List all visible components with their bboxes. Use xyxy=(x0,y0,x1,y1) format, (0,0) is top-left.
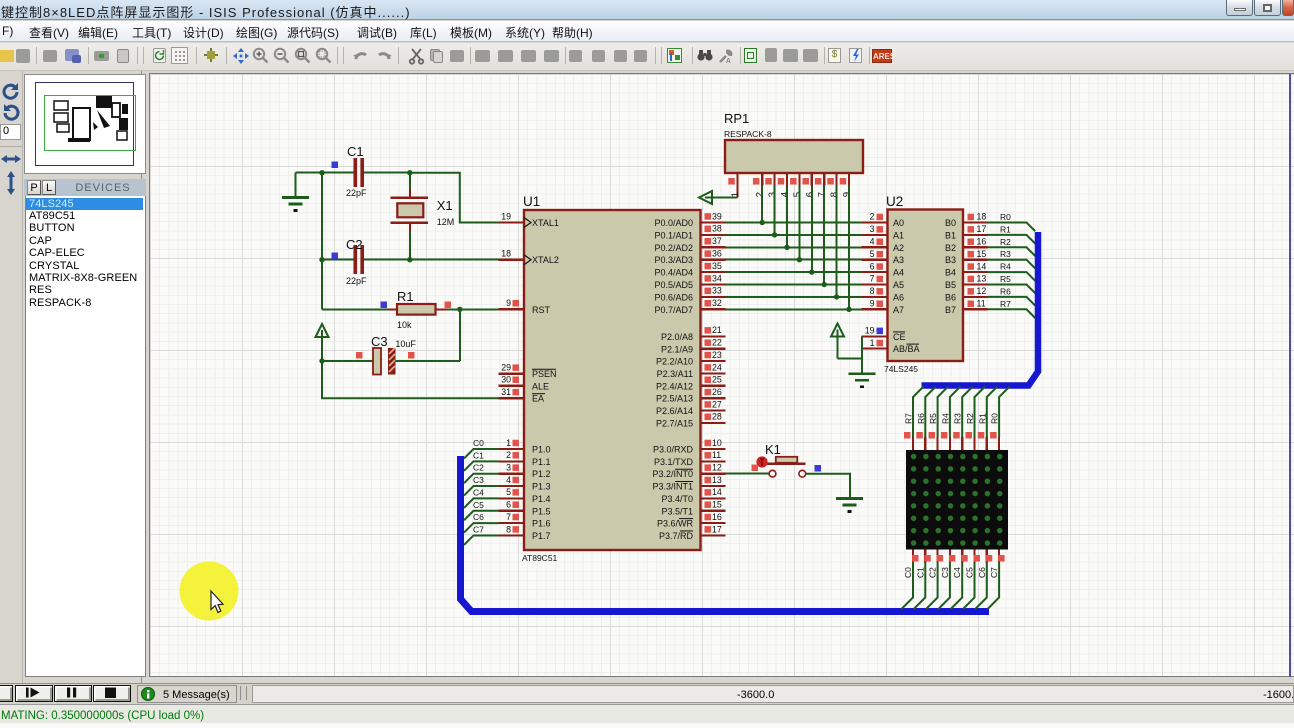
svg-text:P1.2: P1.2 xyxy=(532,469,551,479)
svg-text:C3: C3 xyxy=(473,475,484,485)
svg-text:4: 4 xyxy=(780,192,791,197)
svg-text:C6: C6 xyxy=(473,512,484,522)
svg-text:4: 4 xyxy=(506,475,511,485)
svg-text:1: 1 xyxy=(506,438,511,448)
svg-text:B2: B2 xyxy=(945,243,956,253)
svg-text:P3.4/T0: P3.4/T0 xyxy=(661,494,693,504)
svg-text:P2.2/A10: P2.2/A10 xyxy=(656,357,693,367)
svg-text:29: 29 xyxy=(501,363,511,373)
U1 left logic-state squares xyxy=(513,300,520,533)
U2 pin names xyxy=(893,218,956,354)
svg-text:15: 15 xyxy=(712,500,722,510)
net labels C0-C7 below matrix (rotated) xyxy=(903,567,999,578)
svg-text:B0: B0 xyxy=(945,218,956,228)
svg-text:R0: R0 xyxy=(990,413,1000,424)
svg-text:C3: C3 xyxy=(371,334,388,349)
svg-text:35: 35 xyxy=(712,261,722,271)
svg-text:22: 22 xyxy=(712,338,722,348)
power arrow (reset section) xyxy=(316,324,329,361)
svg-text:39: 39 xyxy=(712,211,722,221)
svg-text:PSEN: PSEN xyxy=(532,369,557,379)
crystal X1 xyxy=(391,173,428,261)
svg-text:RST: RST xyxy=(532,305,551,315)
net labels R0-R7 (U2 right) xyxy=(1000,212,1011,309)
wires RP1 pins 2-9 down to P0 rows xyxy=(762,186,849,310)
U2 left pin numbers xyxy=(865,212,875,348)
node R1 right junction xyxy=(457,307,462,312)
svg-text:13: 13 xyxy=(977,274,987,284)
U2 right logic-state squares xyxy=(968,214,975,307)
svg-text:5: 5 xyxy=(870,249,875,259)
svg-text:A5: A5 xyxy=(893,280,904,290)
svg-text:R5: R5 xyxy=(928,413,938,424)
power arrow (RP1 pin1, pointing left) xyxy=(699,191,738,204)
node C3 left junction xyxy=(319,358,324,363)
RP1 logic-state squares xyxy=(728,178,846,185)
svg-text:CE: CE xyxy=(893,332,906,342)
svg-text:34: 34 xyxy=(712,273,722,283)
svg-text:37: 37 xyxy=(712,236,722,246)
svg-text:26: 26 xyxy=(712,387,722,397)
node X1 top junction xyxy=(407,170,412,175)
svg-text:RESPACK-8: RESPACK-8 xyxy=(724,129,772,139)
ground (crystal section) xyxy=(282,198,309,211)
U2 left logic-state squares xyxy=(877,214,884,347)
svg-text:13: 13 xyxy=(712,475,722,485)
svg-text:17: 17 xyxy=(712,524,722,534)
svg-text:15: 15 xyxy=(977,249,987,259)
svg-text:R2: R2 xyxy=(965,413,975,424)
svg-text:4: 4 xyxy=(870,237,875,247)
button K1 xyxy=(767,457,806,477)
node C2 junction xyxy=(319,257,324,262)
net labels C0-C7 (P1 side) xyxy=(473,438,484,534)
svg-text:U2: U2 xyxy=(886,194,903,209)
U2 right pin stubs xyxy=(963,223,988,310)
svg-text:32: 32 xyxy=(712,298,722,308)
U1 left pin numbers xyxy=(501,211,511,534)
svg-text:24: 24 xyxy=(712,362,722,372)
svg-text:A7: A7 xyxy=(893,305,904,315)
svg-text:19: 19 xyxy=(501,211,511,221)
svg-text:2: 2 xyxy=(870,212,875,222)
svg-text:5: 5 xyxy=(792,192,803,197)
svg-text:33: 33 xyxy=(712,286,722,296)
svg-text:19: 19 xyxy=(865,326,875,336)
svg-text:K1: K1 xyxy=(765,442,781,457)
svg-text:C6: C6 xyxy=(977,567,987,578)
svg-text:P2.0/A8: P2.0/A8 xyxy=(661,332,693,342)
svg-text:3: 3 xyxy=(506,463,511,473)
svg-text:10k: 10k xyxy=(397,320,412,330)
svg-text:R7: R7 xyxy=(1000,299,1011,309)
logic-state squares R1 xyxy=(381,302,388,309)
logic-state square C2 xyxy=(332,253,339,260)
wire left rail x=322 (C1/C2/R1) xyxy=(321,173,323,310)
svg-text:P0.2/AD2: P0.2/AD2 xyxy=(654,243,693,253)
svg-text:P3.3/INT1: P3.3/INT1 xyxy=(652,482,693,492)
U2 left pin stubs xyxy=(862,223,888,349)
svg-text:P0.4/AD4: P0.4/AD4 xyxy=(654,268,693,278)
node X1 bottom junction xyxy=(407,257,412,262)
svg-text:16: 16 xyxy=(712,512,722,522)
svg-text:9: 9 xyxy=(870,299,875,309)
svg-text:38: 38 xyxy=(712,224,722,234)
svg-text:7: 7 xyxy=(870,274,875,284)
buffer U2 74LS245 body xyxy=(888,210,964,362)
svg-text:C5: C5 xyxy=(965,567,975,578)
svg-text:10: 10 xyxy=(712,438,722,448)
svg-text:C0: C0 xyxy=(903,567,913,578)
U1 left pin names xyxy=(532,218,559,541)
svg-text:A4: A4 xyxy=(893,268,904,278)
svg-text:P2.4/A12: P2.4/A12 xyxy=(656,381,693,391)
svg-text:27: 27 xyxy=(712,399,722,409)
svg-text:A2: A2 xyxy=(893,243,904,253)
U1 right logic-state squares xyxy=(705,213,712,532)
K1 interactive actuator dot xyxy=(756,456,767,467)
resistor R1 xyxy=(322,304,460,315)
svg-text:P2.1/A9: P2.1/A9 xyxy=(661,344,693,354)
node C1 top junction xyxy=(319,170,324,175)
svg-text:B5: B5 xyxy=(945,280,956,290)
svg-text:7: 7 xyxy=(506,512,511,522)
svg-text:XTAL1: XTAL1 xyxy=(532,218,559,228)
wire power to AB/BA and CE xyxy=(838,336,863,372)
svg-text:R6: R6 xyxy=(1000,286,1011,296)
svg-text:6: 6 xyxy=(804,192,815,197)
svg-text:C7: C7 xyxy=(989,567,999,578)
svg-text:P3.5/T1: P3.5/T1 xyxy=(661,506,693,516)
svg-text:5: 5 xyxy=(506,487,511,497)
svg-text:P3.0/RXD: P3.0/RXD xyxy=(653,445,694,455)
svg-text:R6: R6 xyxy=(916,413,926,424)
cursor highlight xyxy=(168,550,258,640)
svg-text:P3.2/INT0: P3.2/INT0 xyxy=(652,469,693,479)
svg-text:B1: B1 xyxy=(945,230,956,240)
logic-state square C1 xyxy=(332,162,339,169)
svg-text:A0: A0 xyxy=(893,218,904,228)
svg-text:C5: C5 xyxy=(473,500,484,510)
svg-text:RP1: RP1 xyxy=(724,111,749,126)
svg-text:6: 6 xyxy=(870,261,875,271)
wire P3.2 to K1 xyxy=(726,473,770,475)
svg-text:1: 1 xyxy=(870,338,875,348)
svg-text:R3: R3 xyxy=(1000,249,1011,259)
svg-text:P3.1/TXD: P3.1/TXD xyxy=(654,457,694,467)
svg-text:C3: C3 xyxy=(940,567,950,578)
svg-text:P0.6/AD6: P0.6/AD6 xyxy=(654,292,693,302)
svg-text:C2: C2 xyxy=(473,463,484,473)
svg-text:ALE: ALE xyxy=(532,381,549,391)
resistor-pack RP1 RESPACK-8 xyxy=(725,140,863,173)
svg-text:P1.6: P1.6 xyxy=(532,519,551,529)
svg-text:P2.7/A15: P2.7/A15 xyxy=(656,418,693,428)
svg-text:R4: R4 xyxy=(940,413,950,424)
matrix bottom pin stubs xyxy=(913,550,999,563)
svg-text:XTAL2: XTAL2 xyxy=(532,255,559,265)
svg-text:14: 14 xyxy=(712,487,722,497)
ground (K1) xyxy=(836,499,863,512)
bus P1/column bus (blue) xyxy=(461,456,990,612)
svg-text:25: 25 xyxy=(712,375,722,385)
svg-text:P1.3: P1.3 xyxy=(532,482,551,492)
svg-text:12: 12 xyxy=(977,286,987,296)
svg-text:C1: C1 xyxy=(915,567,925,578)
svg-text:12: 12 xyxy=(712,463,722,473)
svg-text:30: 30 xyxy=(501,375,511,385)
svg-text:2: 2 xyxy=(506,450,511,460)
svg-text:R0: R0 xyxy=(1000,212,1011,222)
ground (U2 section) xyxy=(849,374,876,387)
svg-text:P2.5/A13: P2.5/A13 xyxy=(656,394,693,404)
svg-text:R2: R2 xyxy=(1000,237,1011,247)
wires P0 rows to U2 A inputs xyxy=(726,223,871,310)
logic-state squares C3 xyxy=(356,352,363,359)
svg-text:P1.7: P1.7 xyxy=(532,531,551,541)
svg-text:36: 36 xyxy=(712,249,722,259)
svg-text:7: 7 xyxy=(817,192,828,197)
svg-text:A3: A3 xyxy=(893,255,904,265)
svg-text:P0.0/AD0: P0.0/AD0 xyxy=(654,218,693,228)
svg-text:2: 2 xyxy=(755,192,766,197)
svg-text:P0.5/AD5: P0.5/AD5 xyxy=(654,280,693,290)
RP1 pin stubs xyxy=(738,173,849,198)
svg-text:C4: C4 xyxy=(473,487,484,497)
svg-text:P3.6/WR: P3.6/WR xyxy=(657,519,694,529)
svg-text:12M: 12M xyxy=(437,217,455,227)
svg-text:18: 18 xyxy=(977,212,987,222)
svg-text:A1: A1 xyxy=(893,230,904,240)
wires matrix bottom to bus xyxy=(902,563,1000,610)
svg-text:31: 31 xyxy=(501,387,511,397)
wire K1 to ground xyxy=(806,474,850,499)
capacitor C2 xyxy=(322,245,499,274)
junction dots RP1 to P0 xyxy=(760,220,852,312)
svg-text:EA: EA xyxy=(532,394,544,404)
svg-text:21: 21 xyxy=(712,325,722,335)
svg-text:16: 16 xyxy=(977,237,987,247)
svg-text:R1: R1 xyxy=(397,289,414,304)
svg-text:A6: A6 xyxy=(893,292,904,302)
svg-text:P2.3/A11: P2.3/A11 xyxy=(657,369,693,379)
svg-text:8: 8 xyxy=(870,286,875,296)
svg-text:1: 1 xyxy=(730,192,741,197)
svg-text:10uF: 10uF xyxy=(395,339,416,349)
svg-text:8: 8 xyxy=(829,192,840,197)
svg-text:C2: C2 xyxy=(346,237,363,252)
svg-text:22pF: 22pF xyxy=(346,188,367,198)
svg-text:B6: B6 xyxy=(945,292,956,302)
svg-text:B4: B4 xyxy=(945,268,956,278)
svg-text:P1.0: P1.0 xyxy=(532,445,551,455)
svg-text:R3: R3 xyxy=(953,413,963,424)
svg-text:AB/BA: AB/BA xyxy=(893,344,920,354)
svg-text:8: 8 xyxy=(506,524,511,534)
wire ground to C1 rail xyxy=(296,173,323,198)
svg-text:P1.4: P1.4 xyxy=(532,494,551,504)
wires bus to matrix top pins xyxy=(913,387,1010,438)
wire rail to EA xyxy=(322,361,499,398)
capacitor C1 xyxy=(322,158,410,187)
led-matrix MATRIX-8X8-GREEN body xyxy=(906,450,1008,550)
svg-text:11: 11 xyxy=(712,450,721,460)
svg-text:3: 3 xyxy=(767,192,778,197)
svg-text:C1: C1 xyxy=(347,144,364,159)
svg-text:AT89C51: AT89C51 xyxy=(522,553,558,563)
op-chip U1 AT89C51 body xyxy=(524,210,701,550)
svg-text:P3.7/RD: P3.7/RD xyxy=(659,531,694,541)
svg-text:P2.6/A14: P2.6/A14 xyxy=(656,406,693,416)
matrix top pin stubs xyxy=(913,437,999,450)
svg-text:P1.5: P1.5 xyxy=(532,506,551,516)
svg-text:3: 3 xyxy=(870,224,875,234)
bus R (blue, right) xyxy=(922,232,1039,386)
svg-text:P1.1: P1.1 xyxy=(532,457,551,467)
svg-text:B7: B7 xyxy=(945,305,956,315)
U1 right pin numbers xyxy=(712,211,722,534)
svg-text:6: 6 xyxy=(506,500,511,510)
wire RST junction down to C3 xyxy=(459,309,461,361)
wire C1 to XTAL1 corner xyxy=(410,173,499,223)
matrix bottom logic-state squares xyxy=(912,555,1005,562)
wire R1 to RST xyxy=(460,308,499,310)
svg-text:C0: C0 xyxy=(473,438,484,448)
svg-text:R5: R5 xyxy=(1000,274,1011,284)
svg-text:11: 11 xyxy=(977,299,986,309)
svg-text:X1: X1 xyxy=(437,198,453,213)
svg-text:22pF: 22pF xyxy=(346,276,367,286)
svg-text:74LS245: 74LS245 xyxy=(884,364,918,374)
svg-text:C7: C7 xyxy=(473,524,484,534)
wire P1 rows to bus xyxy=(464,449,499,545)
svg-text:C1: C1 xyxy=(473,450,484,460)
svg-text:14: 14 xyxy=(977,261,987,271)
K1 logic-state squares xyxy=(752,465,759,472)
capacitor C3 (electrolytic) xyxy=(322,348,460,375)
svg-text:U1: U1 xyxy=(523,194,540,209)
svg-text:R1: R1 xyxy=(1000,224,1011,234)
svg-text:C2: C2 xyxy=(928,567,938,578)
U1 right pins xyxy=(701,223,726,536)
svg-text:17: 17 xyxy=(977,224,987,234)
svg-text:P0.3/AD3: P0.3/AD3 xyxy=(654,255,693,265)
svg-text:R4: R4 xyxy=(1000,262,1011,272)
svg-text:R1: R1 xyxy=(977,413,987,424)
svg-text:B3: B3 xyxy=(945,255,956,265)
svg-text:9: 9 xyxy=(506,298,511,308)
U1 right pin names xyxy=(652,218,693,541)
svg-text:9: 9 xyxy=(842,192,853,197)
wires U2 B outputs to bus xyxy=(988,223,1036,319)
svg-text:P0.1/AD1: P0.1/AD1 xyxy=(654,230,693,240)
RP1 pin numbers (rotated) xyxy=(730,192,852,197)
svg-text:C4: C4 xyxy=(952,567,962,578)
power arrow (U2 CE section) xyxy=(831,324,844,359)
U1 left pins xyxy=(499,223,525,536)
svg-text:18: 18 xyxy=(501,249,511,259)
svg-text:28: 28 xyxy=(712,412,722,422)
svg-text:P0.7/AD7: P0.7/AD7 xyxy=(654,305,693,315)
U2 right pin numbers xyxy=(977,212,987,309)
matrix top logic-state squares xyxy=(904,432,997,439)
svg-text:23: 23 xyxy=(712,350,722,360)
net labels R7-R0 above matrix (rotated) xyxy=(904,413,1000,424)
svg-text:R7: R7 xyxy=(904,413,914,424)
